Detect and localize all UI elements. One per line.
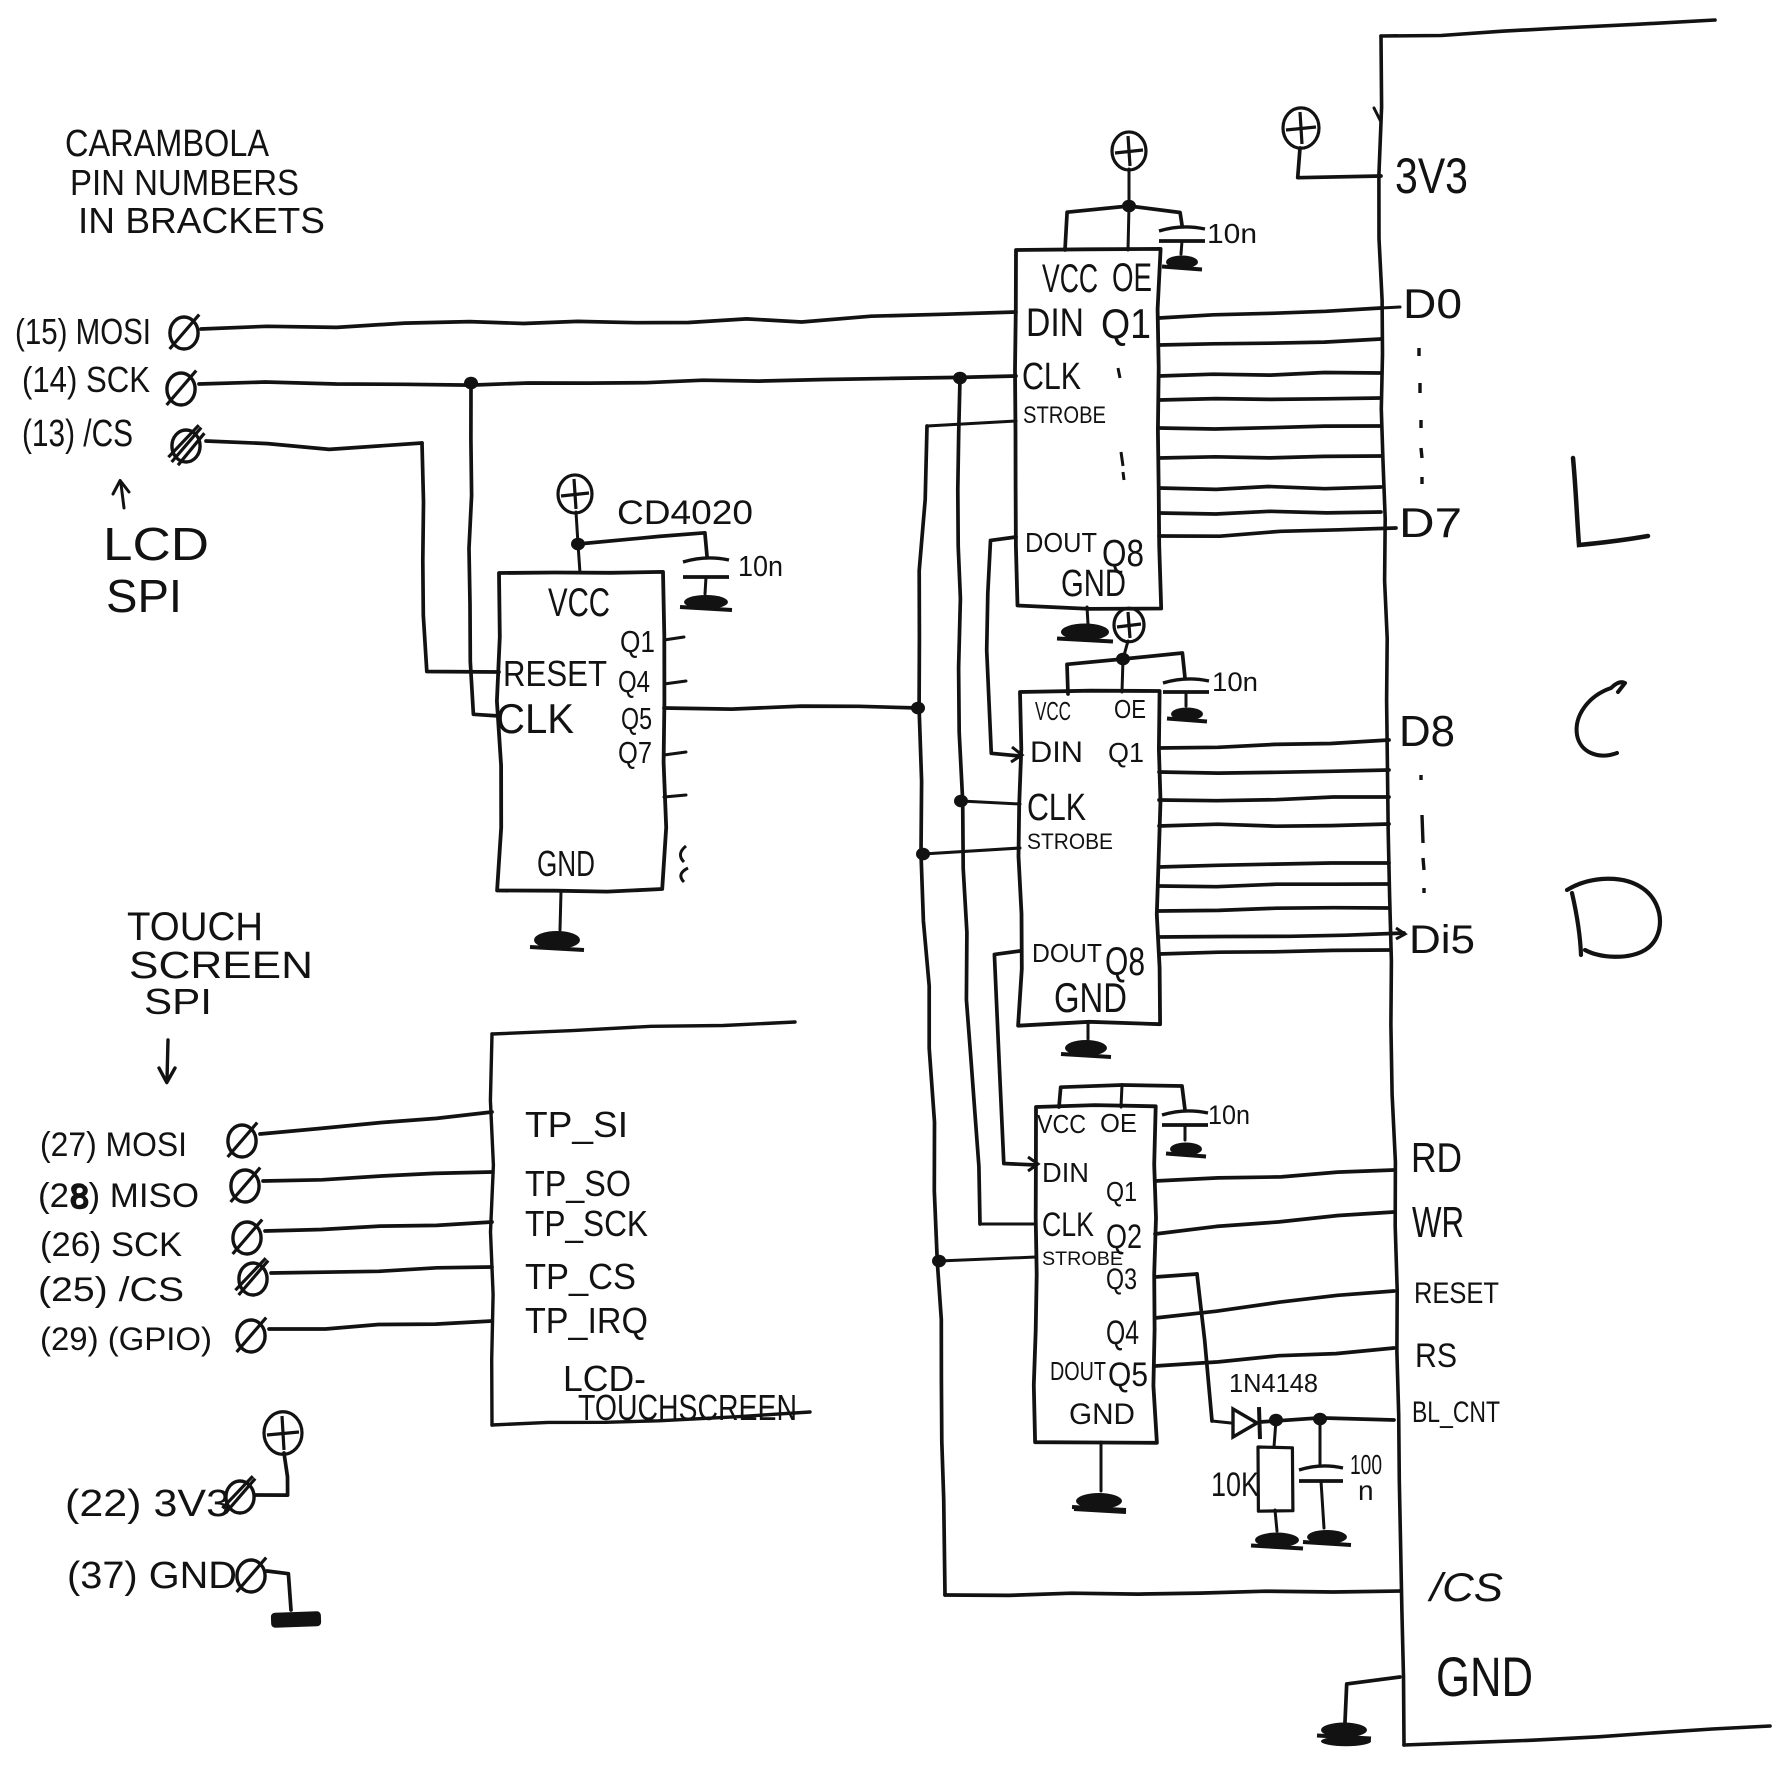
svg-text:WR: WR	[1412, 1198, 1464, 1247]
svg-text:CLK: CLK	[1022, 356, 1081, 398]
svg-text:SPI: SPI	[106, 570, 182, 622]
svg-text:Q3: Q3	[1106, 1263, 1137, 1296]
svg-text:VCC: VCC	[1042, 257, 1098, 301]
svg-text:(29) (GPIO): (29) (GPIO)	[40, 1321, 212, 1357]
svg-text:TP_SI: TP_SI	[525, 1104, 628, 1145]
svg-text:OE: OE	[1100, 1108, 1137, 1138]
svg-text:(22) 3V3: (22) 3V3	[65, 1483, 230, 1525]
svg-text:Q1: Q1	[1108, 737, 1144, 768]
svg-text:10n: 10n	[1207, 218, 1257, 249]
svg-text:(25) /CS: (25) /CS	[38, 1271, 184, 1309]
svg-text:Q1: Q1	[1101, 300, 1151, 347]
svg-text:(28) MISO: (28) MISO	[38, 1177, 199, 1215]
svg-text:VCC: VCC	[1035, 696, 1071, 726]
svg-text:IN BRACKETS: IN BRACKETS	[78, 200, 325, 241]
svg-text:OE: OE	[1112, 256, 1152, 300]
svg-text:Q5: Q5	[1108, 1356, 1148, 1394]
svg-text:GND: GND	[537, 843, 595, 884]
svg-text:Q4: Q4	[618, 664, 650, 699]
svg-text:Q1: Q1	[1106, 1176, 1137, 1207]
svg-text:BL_CNT: BL_CNT	[1412, 1396, 1500, 1429]
svg-text:CARAMBOLA: CARAMBOLA	[65, 123, 270, 165]
svg-text:RD: RD	[1411, 1134, 1462, 1181]
svg-text:GND: GND	[1436, 1645, 1533, 1708]
svg-text:VCC: VCC	[548, 581, 610, 625]
svg-text:TOUCH: TOUCH	[127, 905, 263, 949]
svg-text:DIN: DIN	[1026, 301, 1084, 345]
svg-text:DOUT: DOUT	[1032, 938, 1102, 968]
svg-text:DOUT: DOUT	[1025, 527, 1097, 558]
svg-text:TP_IRQ: TP_IRQ	[525, 1300, 648, 1341]
svg-text:(37) GND: (37) GND	[67, 1555, 237, 1597]
svg-text:Q1: Q1	[620, 624, 655, 659]
svg-text:CLK: CLK	[496, 695, 574, 742]
svg-text:CLK: CLK	[1027, 787, 1086, 829]
svg-text:DIN: DIN	[1030, 736, 1083, 769]
svg-text:10n: 10n	[1208, 1100, 1250, 1130]
svg-text:D7: D7	[1399, 499, 1462, 546]
svg-text:Q4: Q4	[1106, 1314, 1139, 1352]
svg-text:Q5: Q5	[621, 701, 652, 736]
svg-text:(13) /CS: (13) /CS	[22, 413, 133, 455]
svg-text:GND: GND	[1061, 563, 1126, 605]
svg-text:TOUCHSCREEN: TOUCHSCREEN	[578, 1387, 797, 1428]
svg-text:CLK: CLK	[1042, 1206, 1094, 1244]
svg-text:LCD: LCD	[103, 518, 209, 570]
svg-text:DIN: DIN	[1042, 1157, 1089, 1188]
svg-text:TP_CS: TP_CS	[525, 1256, 636, 1297]
svg-text:TP_SCK: TP_SCK	[525, 1203, 648, 1244]
svg-text:3V3: 3V3	[1395, 148, 1468, 204]
svg-text:(14) SCK: (14) SCK	[22, 359, 150, 400]
svg-text:GND: GND	[1069, 1398, 1135, 1431]
svg-text:D0: D0	[1403, 280, 1462, 327]
svg-text:D8: D8	[1399, 707, 1455, 756]
svg-text:STROBE: STROBE	[1027, 829, 1113, 854]
svg-text:10n: 10n	[738, 551, 783, 583]
svg-text:10n: 10n	[1212, 667, 1258, 697]
svg-text:1N4148: 1N4148	[1229, 1368, 1318, 1398]
svg-text:VCC: VCC	[1037, 1109, 1086, 1139]
svg-text:10K: 10K	[1211, 1466, 1259, 1504]
svg-text:Di5: Di5	[1409, 918, 1475, 962]
svg-text:/CS: /CS	[1427, 1566, 1504, 1610]
svg-text:SPI: SPI	[144, 981, 212, 1022]
svg-text:RS: RS	[1415, 1337, 1457, 1375]
svg-text:Q7: Q7	[618, 735, 652, 770]
svg-text:OE: OE	[1114, 694, 1146, 724]
svg-text:GND: GND	[1054, 974, 1127, 1021]
svg-text:DOUT: DOUT	[1050, 1356, 1106, 1386]
svg-text:8: 8	[70, 1178, 89, 1217]
svg-text:(26) SCK: (26) SCK	[40, 1226, 182, 1264]
svg-text:CD4020: CD4020	[617, 494, 753, 532]
svg-text:STROBE: STROBE	[1023, 402, 1106, 429]
svg-text:RESET: RESET	[1414, 1277, 1499, 1310]
svg-text:n: n	[1358, 1475, 1374, 1506]
svg-text:(15) MOSI: (15) MOSI	[15, 311, 151, 352]
svg-text:PIN NUMBERS: PIN NUMBERS	[70, 162, 299, 203]
svg-text:TP_SO: TP_SO	[525, 1163, 631, 1204]
svg-text:RESET: RESET	[503, 653, 607, 694]
svg-text:(27) MOSI: (27) MOSI	[40, 1126, 187, 1164]
